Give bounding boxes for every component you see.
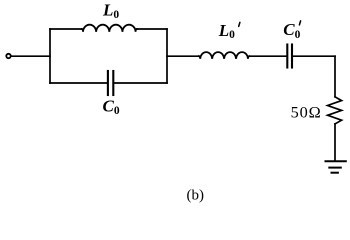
wire resistor to ground <box>334 124 336 161</box>
wire box left vertical <box>49 29 51 83</box>
input terminal <box>6 54 10 58</box>
svg-text:C0: C0 <box>103 96 120 117</box>
resistor R 50ohm <box>328 97 342 124</box>
svg-text:(b): (b) <box>187 188 205 204</box>
wire box output to L0' <box>167 55 199 57</box>
svg-text:L0: L0 <box>218 21 235 41</box>
ground <box>326 161 346 172</box>
wire C0' to corner <box>293 55 335 57</box>
svg-text:50Ω: 50Ω <box>291 102 322 121</box>
wire box top-left segment <box>50 28 82 30</box>
label C0' prime tick <box>299 21 300 25</box>
capacitor C0 <box>108 71 113 95</box>
wire L0' to C0' <box>249 55 286 57</box>
label L0' prime tick <box>239 22 240 26</box>
svg-text:L0: L0 <box>102 0 119 21</box>
inductor L0' <box>199 52 249 59</box>
wire corner down to resistor <box>334 56 336 97</box>
svg-text:C0: C0 <box>283 20 300 41</box>
wire input to box <box>12 55 50 57</box>
inductor L0 <box>82 25 137 32</box>
wire box bottom-right segment <box>114 82 167 84</box>
capacitor C0' <box>287 45 292 68</box>
wire box bottom-left segment <box>50 82 107 84</box>
wire box right vertical <box>166 29 168 83</box>
wire box top-right segment <box>137 28 167 30</box>
